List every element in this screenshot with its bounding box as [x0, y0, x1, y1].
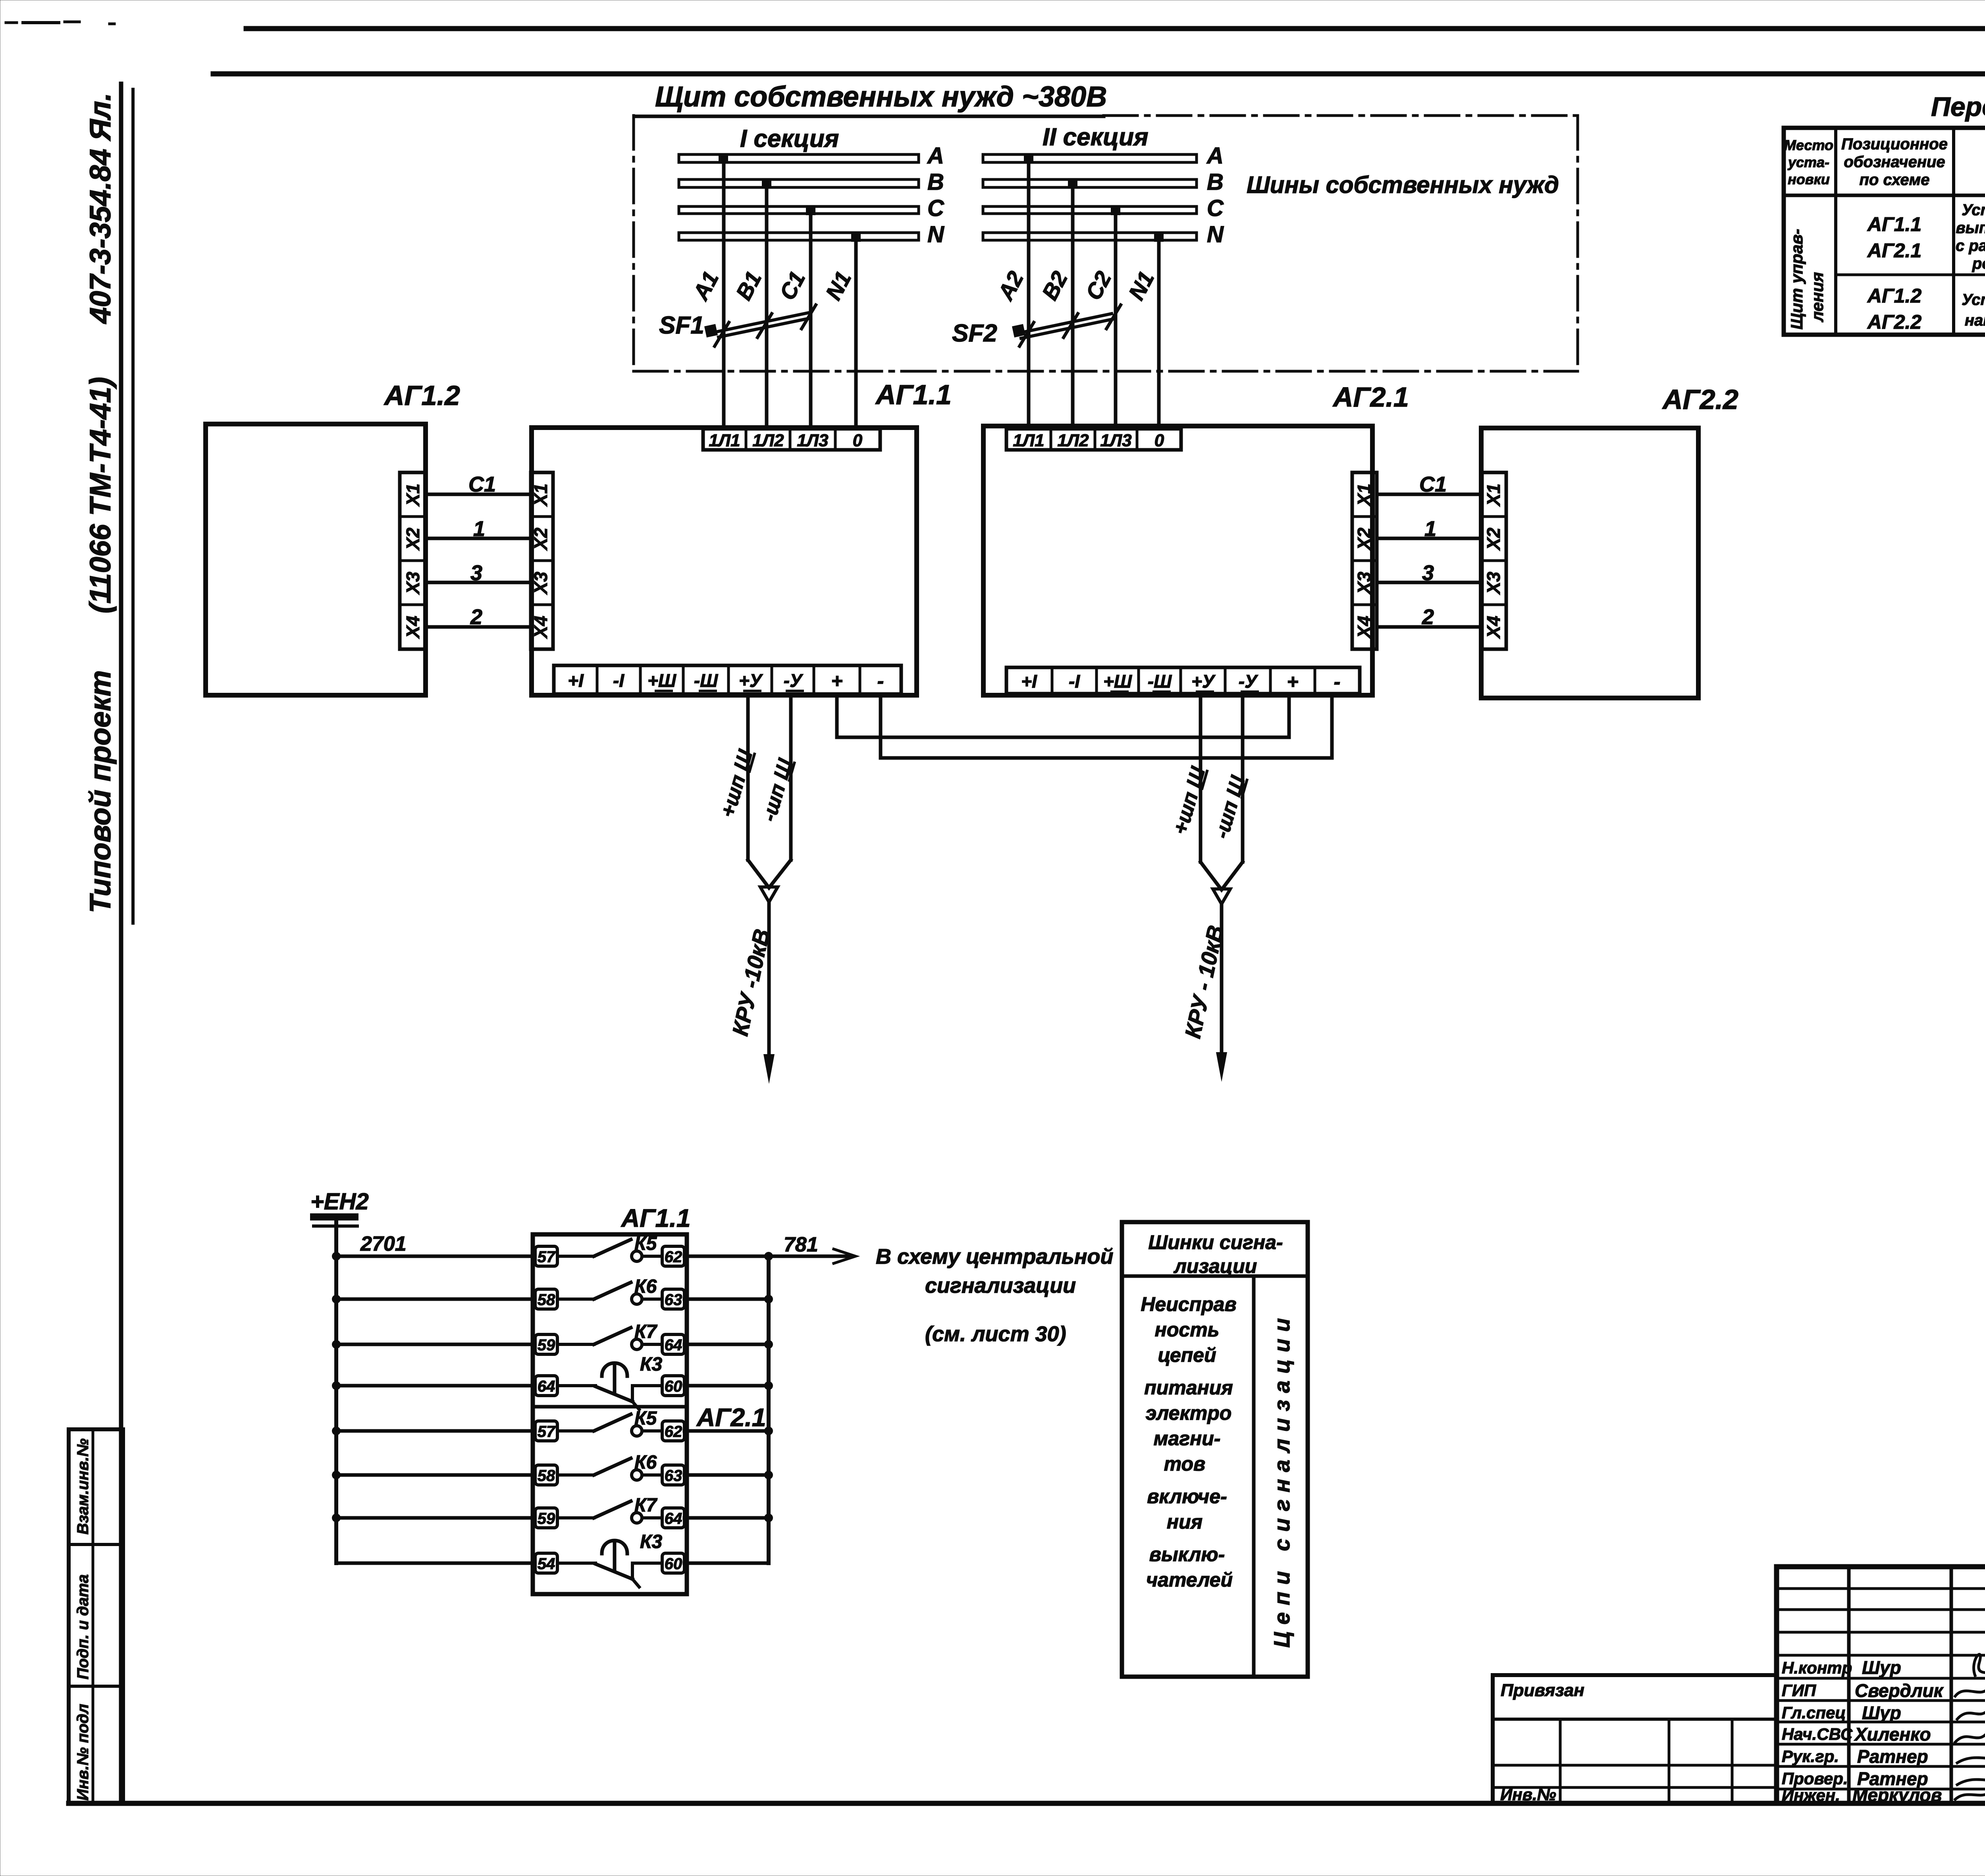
- svg-text:В: В: [1207, 169, 1224, 195]
- header Позиционное обозначение по схеме: [1841, 135, 1948, 189]
- svg-text:АГ1.2: АГ1.2: [1867, 285, 1921, 307]
- svg-text:X2: X2: [1483, 527, 1504, 551]
- right terminal 63: [662, 1289, 684, 1309]
- side text underline: [131, 89, 135, 923]
- svg-text:Свердлик: Свердлик: [1855, 1680, 1944, 1701]
- svg-text:ность: ность: [1155, 1319, 1220, 1341]
- svg-text:+I: +I: [568, 670, 584, 691]
- svg-text:включе-: включе-: [1147, 1485, 1227, 1508]
- svg-text:ройством: ройством: [1972, 255, 1985, 272]
- svg-text:3: 3: [1422, 561, 1434, 585]
- tap node A1: [719, 154, 728, 164]
- svg-text:-I: -I: [613, 670, 624, 691]
- scan noise dashes top-left: [6, 21, 17, 24]
- svg-text:63: 63: [665, 1467, 682, 1485]
- svg-text:В1: В1: [731, 267, 766, 304]
- svg-text:чателей: чателей: [1146, 1569, 1233, 1591]
- svg-text:АГ1.1: АГ1.1: [1867, 213, 1921, 235]
- bus bar N section I: [679, 233, 919, 240]
- right terminal 60: [662, 1553, 684, 1573]
- signature squiggles: [1955, 1654, 1985, 1799]
- svg-text:63: 63: [665, 1291, 682, 1309]
- cable line to KRU-10kV right: [1220, 904, 1224, 1058]
- svg-text:с распредуст-: с распредуст-: [1956, 237, 1985, 255]
- svg-text:1Л1: 1Л1: [709, 431, 740, 450]
- svg-text:Хиленко: Хиленко: [1854, 1724, 1931, 1745]
- wire 1 between AG2.1 and AG2.2: [1377, 537, 1482, 540]
- svg-text:Меркулов: Меркулов: [1852, 1785, 1942, 1805]
- svg-text:Инв.№: Инв.№: [1500, 1785, 1556, 1804]
- svg-text:+У: +У: [739, 670, 763, 691]
- bus bar B section I: [679, 179, 919, 187]
- svg-text:накопителя: накопителя: [1965, 312, 1985, 329]
- cell Устройство выпрямителя с распредустройством: [1956, 201, 1985, 272]
- frame left line: [119, 84, 123, 1803]
- svg-text:Щит управ-: Щит управ-: [1787, 229, 1806, 330]
- svg-text:-: -: [1334, 671, 1341, 693]
- bus labels A B C N section I: [927, 143, 944, 247]
- svg-text:+: +: [1287, 671, 1298, 693]
- arrow KRU-10kV right: [1216, 1052, 1227, 1082]
- row wire from terminal 63 to bus: [684, 1473, 769, 1477]
- contact К5: [557, 1414, 662, 1436]
- bottom terminal strip of AG1.1: [554, 665, 901, 694]
- svg-text:0: 0: [1154, 431, 1164, 450]
- row wire from terminal 64 to bus: [684, 1516, 769, 1520]
- svg-text:-У: -У: [784, 670, 804, 691]
- svg-text:питания: питания: [1144, 1377, 1233, 1399]
- svg-text:выпрямителя: выпрямителя: [1956, 219, 1985, 237]
- svg-text:59: 59: [538, 1510, 555, 1527]
- wire +V down from AG1.1: [746, 694, 750, 860]
- vertical bus from EH2: [334, 1220, 338, 1563]
- row wire from terminal 60 to bus: [684, 1562, 769, 1565]
- tap node B1: [762, 179, 771, 189]
- svg-text:(11066 ТМ-Т4-41): (11066 ТМ-Т4-41): [84, 377, 117, 613]
- svg-text:Нач.СВС: Нач.СВС: [1782, 1725, 1853, 1743]
- svg-text:К6: К6: [634, 1452, 657, 1473]
- terminal strip X1-X4 of AG2.1: [1352, 472, 1377, 649]
- right terminal 62: [662, 1421, 684, 1441]
- svg-text:X2: X2: [530, 527, 551, 551]
- svg-text:АГ2.1: АГ2.1: [696, 1403, 766, 1432]
- wire C1 between AG2.1 and AG2.2: [1377, 493, 1482, 496]
- svg-text:Привязан: Привязан: [1501, 1681, 1584, 1700]
- svg-text:А2: А2: [992, 267, 1028, 305]
- frame top line: [213, 71, 1985, 77]
- wire - interconnect AG1.1 to AG2.1: [881, 694, 1332, 758]
- svg-text:электро: электро: [1146, 1402, 1232, 1424]
- block AG2.1: [983, 426, 1372, 695]
- signal buses box Шинки сигнализации: [1122, 1222, 1308, 1677]
- right bus junction dots: [764, 1252, 773, 1522]
- breaker SF1: [704, 305, 816, 346]
- svg-text:X2: X2: [1354, 527, 1374, 551]
- svg-text:АГ1.2: АГ1.2: [384, 380, 460, 411]
- svg-text:ления: ления: [1808, 272, 1827, 322]
- svg-text:+Ш: +Ш: [648, 670, 676, 691]
- svg-text:62: 62: [665, 1423, 682, 1440]
- wire 3 between AG2.1 and AG2.2: [1377, 581, 1482, 584]
- svg-text:64: 64: [665, 1510, 682, 1527]
- svg-text:Место: Место: [1784, 137, 1833, 153]
- svg-text:АГ2.2: АГ2.2: [1867, 311, 1921, 333]
- triangle cable joint AG1.1: [760, 887, 778, 902]
- terminal strip X1-X4 of AG2.2: [1482, 472, 1506, 649]
- svg-text:Инв.№ подл: Инв.№ подл: [74, 1704, 92, 1801]
- rotated cell Щит управления: [1787, 229, 1827, 330]
- svg-text:59: 59: [538, 1336, 555, 1354]
- right terminal 60: [662, 1376, 684, 1396]
- bottom terminal strip of AG2.1: [1006, 667, 1360, 694]
- terminal strip X1-X4 of AG1.1: [530, 472, 553, 649]
- tap node N1 section I: [851, 232, 861, 242]
- svg-text:Взам.инв.№: Взам.инв.№: [74, 1438, 92, 1535]
- staff table columns: [1849, 1567, 1985, 1803]
- svg-text:I секция: I секция: [740, 125, 839, 152]
- left terminal 59: [535, 1334, 557, 1354]
- svg-text:А: А: [1206, 143, 1224, 169]
- svg-text:Ратнер: Ратнер: [1857, 1746, 1928, 1767]
- svg-text:57: 57: [538, 1423, 556, 1440]
- staff names column: [1852, 1657, 1944, 1805]
- svg-text:1Л3: 1Л3: [1100, 431, 1131, 450]
- bus bar C section I: [679, 206, 919, 214]
- right terminal 64: [662, 1508, 684, 1528]
- bottom-left stamp table: [69, 1429, 123, 1803]
- apparatus table grid: [1784, 128, 1985, 335]
- svg-text:по схеме: по схеме: [1859, 171, 1929, 189]
- contact К5: [557, 1240, 662, 1261]
- wire B1: [765, 184, 769, 429]
- block AG1.2: [206, 424, 426, 695]
- svg-text:N1: N1: [1124, 267, 1159, 304]
- svg-text:К7: К7: [634, 1495, 658, 1516]
- wire 1 between AG1.2 and AG1.1: [426, 537, 531, 540]
- svg-text:-Ш: -Ш: [694, 670, 718, 691]
- row wire from terminal 62 to bus: [684, 1429, 769, 1433]
- svg-text:+шп Ш: +шп Ш: [716, 747, 757, 820]
- svg-text:X4: X4: [530, 616, 551, 639]
- contact К3 latched: [557, 1541, 662, 1587]
- left terminal 59: [535, 1508, 557, 1528]
- block AG2.2: [1481, 428, 1698, 698]
- bus bar C section II: [983, 206, 1197, 214]
- outer top border line: [246, 26, 1985, 31]
- svg-text:-Ш: -Ш: [1148, 671, 1172, 692]
- svg-text:сигнализации: сигнализации: [925, 1274, 1076, 1298]
- svg-text:+: +: [831, 670, 842, 692]
- left terminal 57: [535, 1421, 557, 1441]
- row wire from bus to terminal 58: [336, 1473, 535, 1477]
- svg-text:+Ш: +Ш: [1103, 671, 1132, 692]
- svg-text:Шины собственных нужд: Шины собственных нужд: [1247, 172, 1559, 198]
- svg-text:N: N: [927, 222, 944, 247]
- wire -V down from AG1.1: [789, 694, 793, 860]
- svg-text:1: 1: [473, 517, 485, 541]
- svg-text:Н.контр: Н.контр: [1782, 1658, 1852, 1677]
- svg-text:АГ2.2: АГ2.2: [1662, 384, 1738, 415]
- svg-text:С: С: [927, 195, 944, 221]
- wire + interconnect AG1.1 to AG2.1: [837, 694, 1289, 737]
- left terminal 54: [535, 1553, 557, 1573]
- svg-text:II секция: II секция: [1043, 123, 1149, 151]
- row wire from bus to terminal 54: [336, 1562, 535, 1565]
- svg-text:0: 0: [853, 431, 863, 450]
- svg-text:К5: К5: [634, 1408, 657, 1429]
- svg-text:407-3-354.84 Ял.: 407-3-354.84 Ял.: [84, 93, 117, 324]
- tap node B2: [1068, 179, 1077, 189]
- funnel of AG1.1 cable: [748, 860, 791, 888]
- text В схему центральной сигнализации: [876, 1245, 1113, 1346]
- dash-dot boundary box of switchboard: [634, 116, 1578, 371]
- triangle cable joint AG2.1: [1213, 889, 1230, 904]
- svg-text:1Л1: 1Л1: [1013, 431, 1044, 450]
- svg-text:Провер.: Провер.: [1782, 1769, 1848, 1788]
- funnel of AG2.1 cable: [1201, 862, 1243, 890]
- wire N1 section I: [854, 237, 858, 429]
- text Неисправность цепей питания электромагнитов включения выключателей: [1141, 1293, 1236, 1591]
- svg-text:(см. лист 30): (см. лист 30): [925, 1322, 1066, 1346]
- svg-text:Щит собственных нужд ~380: Щит собственных нужд ~380В: [655, 81, 1107, 113]
- top terminal strip 1Л1 1Л2 1Л3 0 of AG1.1: [703, 429, 880, 450]
- bus tap symbol EH2: [310, 1213, 358, 1226]
- svg-text:лизации: лизации: [1174, 1255, 1257, 1277]
- staff table rows: [1777, 1589, 1985, 1789]
- svg-text:АГ1.1: АГ1.1: [621, 1204, 690, 1232]
- svg-text:X3: X3: [1354, 571, 1374, 595]
- svg-text:обозначение: обозначение: [1844, 153, 1945, 171]
- wire 2 between AG2.1 and AG2.2: [1377, 625, 1482, 629]
- bus bar A section II: [983, 154, 1197, 162]
- svg-text:N1: N1: [821, 267, 856, 304]
- svg-text:С1: С1: [775, 267, 810, 304]
- svg-text:-: -: [877, 670, 884, 692]
- row wire from bus to terminal 57: [336, 1255, 535, 1258]
- svg-text:А: А: [927, 143, 944, 169]
- row wire from bus to terminal 59: [336, 1516, 535, 1520]
- svg-text:781: 781: [784, 1233, 818, 1256]
- svg-text:Позиционное: Позиционное: [1841, 135, 1948, 153]
- top terminal strip 1Л1 1Л2 1Л3 0 of AG2.1: [1006, 429, 1181, 450]
- wire 781 with arrow: [769, 1249, 856, 1263]
- svg-text:X1: X1: [403, 484, 423, 507]
- wire C1: [809, 210, 813, 429]
- svg-text:новки: новки: [1788, 171, 1830, 187]
- svg-text:К6: К6: [634, 1276, 657, 1297]
- svg-text:-I: -I: [1069, 671, 1080, 692]
- wire B2: [1071, 184, 1075, 429]
- header Шинки сигнализации: [1148, 1231, 1283, 1277]
- wire C1 between AG1.2 and AG1.1: [426, 493, 531, 496]
- svg-text:60: 60: [665, 1555, 682, 1573]
- svg-text:К3: К3: [640, 1354, 663, 1375]
- svg-text:SF2: SF2: [952, 320, 997, 347]
- arrow KRU-10kV left: [763, 1054, 775, 1084]
- svg-text:2: 2: [1422, 605, 1434, 629]
- svg-text:АГ1.1: АГ1.1: [875, 379, 952, 410]
- svg-text:Неисправ: Неисправ: [1141, 1293, 1236, 1315]
- contact К7: [557, 1501, 662, 1523]
- svg-text:64: 64: [538, 1378, 555, 1395]
- contact К7: [557, 1328, 662, 1350]
- svg-text:X3: X3: [530, 571, 551, 595]
- svg-text:Рук.гр.: Рук.гр.: [1782, 1747, 1839, 1766]
- svg-text:X1: X1: [1483, 484, 1504, 507]
- svg-text:ния: ния: [1167, 1511, 1203, 1533]
- tap node A2: [1024, 154, 1033, 164]
- svg-text:62: 62: [665, 1248, 682, 1266]
- left terminal 57: [535, 1246, 557, 1266]
- block AG1.1: [532, 428, 917, 695]
- header Место установки: [1784, 137, 1833, 187]
- svg-text:58: 58: [538, 1467, 555, 1485]
- svg-text:58: 58: [538, 1291, 555, 1309]
- right terminal 64: [662, 1334, 684, 1354]
- svg-text:С1: С1: [468, 472, 496, 496]
- wire A1: [722, 159, 726, 429]
- svg-text:1Л3: 1Л3: [797, 431, 828, 450]
- svg-text:С: С: [1207, 195, 1224, 221]
- svg-text:Шур: Шур: [1862, 1702, 1901, 1723]
- wire 3 between AG1.2 and AG1.1: [426, 581, 531, 584]
- svg-text:Шинки сигна-: Шинки сигна-: [1148, 1231, 1283, 1253]
- wire +V down from AG2.1: [1199, 694, 1203, 862]
- terminal strip X1-X4 of AG1.2: [400, 472, 426, 649]
- svg-text:+шп Ш: +шп Ш: [1169, 764, 1210, 837]
- row wire from bus to terminal 59: [336, 1343, 535, 1346]
- svg-text:Устройство: Устройство: [1962, 201, 1985, 219]
- svg-text:уста-: уста-: [1787, 154, 1829, 170]
- right terminal 63: [662, 1465, 684, 1485]
- contact К6: [557, 1282, 662, 1304]
- svg-text:-У: -У: [1239, 671, 1258, 692]
- svg-text:Инжен.: Инжен.: [1782, 1786, 1840, 1805]
- svg-text:Шур: Шур: [1862, 1657, 1901, 1678]
- svg-text:+У: +У: [1191, 671, 1216, 692]
- svg-text:X1: X1: [1354, 484, 1374, 507]
- wire 2 between AG1.2 and AG1.1: [426, 625, 531, 629]
- title underline: [635, 115, 1104, 118]
- wire A2: [1027, 159, 1031, 429]
- svg-text:Типовой проект: Типовой проект: [84, 670, 117, 913]
- svg-text:+ЕН2: +ЕН2: [310, 1189, 369, 1215]
- svg-text:2701: 2701: [360, 1232, 407, 1255]
- wire N1 section II: [1157, 237, 1161, 429]
- svg-text:В: В: [927, 169, 944, 195]
- tap node C2: [1111, 206, 1120, 215]
- svg-text:64: 64: [665, 1336, 682, 1354]
- row wire from terminal 64 to bus: [684, 1343, 769, 1346]
- svg-text:выклю-: выклю-: [1149, 1543, 1225, 1566]
- right terminal 62: [662, 1246, 684, 1266]
- row wire from bus to terminal 57: [336, 1429, 535, 1433]
- bus bar B section II: [983, 179, 1197, 187]
- right bus: [767, 1256, 771, 1563]
- frame bottom line: [69, 1801, 1985, 1806]
- wire C2: [1114, 210, 1118, 429]
- breaker SF2: [1012, 305, 1121, 346]
- svg-text:SF1: SF1: [659, 312, 704, 339]
- svg-text:1: 1: [1424, 517, 1436, 541]
- row wire from bus to terminal 64: [336, 1384, 535, 1388]
- svg-text:ГИП: ГИП: [1782, 1681, 1816, 1700]
- svg-text:2: 2: [470, 605, 482, 629]
- cell АГ1.2 АГ2.2: [1867, 285, 1921, 333]
- signal relay box AG1.1/AG2.1: [533, 1234, 687, 1594]
- svg-text:А1: А1: [688, 267, 723, 305]
- svg-text:X4: X4: [403, 616, 423, 639]
- row wire from terminal 62 to bus: [684, 1255, 769, 1258]
- svg-text:X1: X1: [530, 484, 551, 507]
- svg-text:тов: тов: [1164, 1453, 1206, 1475]
- svg-text:+I: +I: [1021, 671, 1037, 692]
- left terminal 58: [535, 1289, 557, 1309]
- svg-text:60: 60: [665, 1378, 682, 1395]
- привязан box: [1493, 1675, 1777, 1803]
- svg-text:X3: X3: [1483, 571, 1504, 595]
- wire -V down from AG2.1: [1241, 694, 1245, 862]
- svg-text:АГ2.1: АГ2.1: [1867, 239, 1921, 262]
- svg-text:Цепи сигнализации: Цепи сигнализации: [1269, 1318, 1294, 1648]
- svg-text:В схему центральной: В схему центральной: [876, 1245, 1113, 1269]
- row wire from terminal 60 to bus: [684, 1384, 769, 1388]
- row wire from terminal 63 to bus: [684, 1298, 769, 1301]
- svg-text:Гл.спец: Гл.спец: [1782, 1703, 1846, 1722]
- svg-text:X2: X2: [403, 527, 423, 551]
- title block outer: [1777, 1567, 1985, 1803]
- bus bar A section I: [679, 154, 919, 162]
- svg-text:N: N: [1207, 222, 1224, 247]
- svg-text:54: 54: [538, 1555, 555, 1573]
- svg-text:Перечень аппаратуры .: Перечень аппаратуры .: [1931, 92, 1985, 122]
- svg-text:3: 3: [470, 561, 482, 585]
- svg-text:X4: X4: [1354, 616, 1374, 639]
- svg-text:57: 57: [538, 1248, 556, 1266]
- svg-text:К3: К3: [640, 1531, 663, 1552]
- svg-text:цепей: цепей: [1158, 1344, 1216, 1366]
- bus labels A B C N section II: [1206, 143, 1224, 247]
- svg-text:1Л2: 1Л2: [1057, 431, 1089, 450]
- svg-text:X3: X3: [403, 571, 423, 595]
- cell Устройство накопителя: [1962, 291, 1985, 329]
- contact К3 latched: [557, 1363, 662, 1409]
- tap node C1: [806, 206, 815, 215]
- svg-text:К5: К5: [634, 1233, 657, 1254]
- staff roles column: [1782, 1658, 1853, 1805]
- left terminal 58: [535, 1465, 557, 1485]
- contact К6: [557, 1458, 662, 1480]
- svg-text:магни-: магни-: [1154, 1427, 1221, 1450]
- svg-text:1Л2: 1Л2: [752, 431, 784, 450]
- svg-text:С2: С2: [1081, 267, 1116, 304]
- svg-text:В2: В2: [1037, 267, 1072, 304]
- svg-text:X4: X4: [1483, 616, 1504, 639]
- left bus junction dots: [332, 1252, 341, 1522]
- svg-text:АГ2.1: АГ2.1: [1332, 382, 1409, 413]
- svg-text:Подп. и дата: Подп. и дата: [74, 1574, 92, 1679]
- svg-text:К7: К7: [634, 1321, 658, 1342]
- row wire from bus to terminal 58: [336, 1298, 535, 1301]
- cable line to KRU-10kV left: [767, 902, 771, 1061]
- svg-text:С1: С1: [1419, 472, 1447, 496]
- left terminal 64: [535, 1376, 557, 1396]
- cell АГ1.1 АГ2.1: [1867, 213, 1921, 262]
- svg-text:Устройство: Устройство: [1962, 291, 1985, 308]
- bus bar N section II: [983, 233, 1197, 240]
- tap node N1 section II: [1154, 232, 1164, 242]
